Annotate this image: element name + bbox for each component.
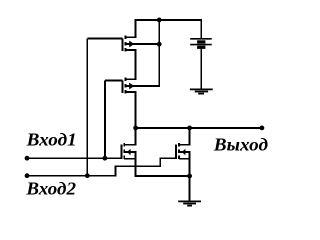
wire bulk net vertical lower — [158, 44, 160, 86]
arrow VT3 bulk n-channel — [127, 149, 131, 155]
node dot top rail — [157, 18, 162, 23]
arrow VT1 bulk p-channel — [129, 41, 134, 48]
svg-text:Вход2: Вход2 — [25, 179, 76, 199]
transistor VT2 source lead — [125, 91, 136, 93]
wire ground feed bottom — [189, 176, 191, 202]
wire input2 zigzag to VT4 gate — [27, 158, 176, 176]
ground symbol right bar 1 — [190, 88, 213, 90]
transistor VT4 source lead — [179, 158, 191, 160]
wire VT3 drain up to output node — [135, 128, 137, 145]
transistor VT1 gate plate — [122, 38, 124, 50]
transistor VT4 bulk lead — [179, 151, 191, 153]
wire VT2 gate vertical — [104, 80, 106, 158]
wire VT4 drain up to output node — [189, 128, 191, 145]
ground symbol right bar 2 — [195, 91, 208, 93]
wire VT1 drain to rail — [135, 19, 137, 37]
wire bulk net vertical — [158, 20, 160, 44]
wire VT3 source and bulk down to ground bus — [136, 152, 190, 176]
transistor VT4 gate plate — [175, 145, 177, 159]
terminal dot input2 — [25, 173, 30, 178]
wire VT1 source to VT2 drain — [135, 50, 137, 79]
transistor VT4 channel ticks — [178, 143, 180, 159]
wire input1 with VT3 gate lead — [27, 157, 121, 159]
transistor VT1 bulk lead — [125, 43, 159, 45]
node dot input1 VT2 gate tap — [103, 156, 108, 161]
transistor VT3 bulk lead — [124, 151, 136, 153]
transistor VT1 channel ticks — [124, 35, 126, 51]
node dot input2 VT1 gate tap — [85, 173, 90, 178]
transistor VT3 channel ticks — [123, 143, 125, 159]
transistor VT1 drain lead — [125, 36, 136, 38]
transistor VT3 gate plate — [120, 145, 122, 159]
ground symbol bottom bar 2 — [183, 203, 196, 205]
transistor VT3 source lead — [124, 158, 136, 160]
transistor VT4 drain lead — [179, 144, 191, 146]
transistor VT2 gate lead — [105, 79, 123, 81]
ground symbol right bar 3 — [198, 93, 204, 95]
svg-text:Выход: Выход — [213, 135, 269, 155]
transistor VT2 bulk lead — [125, 85, 160, 87]
wire output horizontal — [136, 127, 263, 129]
arrow VT4 bulk n-channel — [182, 149, 186, 155]
wire VT1 gate vertical — [86, 38, 88, 175]
terminal dot output — [260, 126, 265, 131]
node dot VT1 bulk tap — [157, 42, 162, 47]
node dot output left — [133, 126, 138, 131]
battery GB long plate 1 — [190, 38, 212, 40]
arrow VT2 bulk p-channel — [129, 83, 134, 90]
transistor VT1 gate lead — [87, 37, 122, 39]
transistor VT1 source lead — [125, 49, 136, 51]
transistor VT2 gate plate — [122, 80, 124, 92]
wire top power rail — [136, 19, 202, 21]
node dot output VT4 drain — [187, 126, 192, 131]
transistor VT2 drain lead — [125, 78, 136, 80]
battery GB long plate 2 — [190, 44, 212, 46]
node dot ground bus — [187, 174, 192, 179]
transistor VT2 channel ticks — [124, 77, 126, 93]
terminal dot input1 — [25, 156, 30, 161]
ground symbol bottom bar 3 — [187, 205, 192, 207]
wire battery feed from rail — [200, 19, 202, 39]
ground symbol bottom bar 1 — [178, 200, 201, 202]
wire battery to ground — [200, 47, 202, 89]
battery GB short thick plate 2 — [197, 46, 205, 49]
wire VT4 source and bulk down to ground bus — [189, 152, 191, 176]
svg-text:Вход1: Вход1 — [26, 129, 77, 149]
battery GB short thick plate 1 — [197, 40, 205, 43]
transistor VT3 drain lead — [124, 144, 136, 146]
wire VT2 source down to output node — [135, 92, 137, 128]
